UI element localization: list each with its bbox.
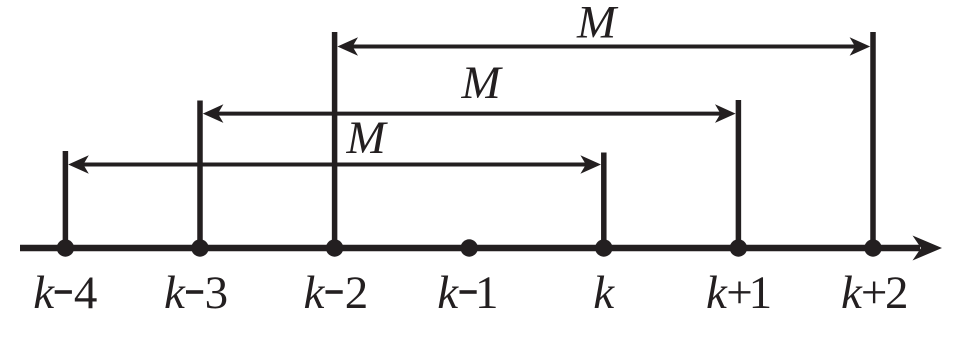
svg-text:M: M [346, 112, 389, 164]
svg-text:k: k [593, 267, 615, 319]
tick line at k+2 [870, 32, 876, 248]
axis label k+1 [706, 267, 772, 319]
node dot k+1 [730, 239, 747, 256]
number line axis with arrowhead [20, 236, 942, 261]
axis label k-3 [164, 267, 228, 319]
axis label k-4 [33, 267, 97, 319]
svg-text:k: k [706, 267, 728, 319]
node dot k [595, 239, 612, 256]
tick line at k-2 [332, 32, 338, 248]
svg-text:2: 2 [345, 267, 369, 319]
tick line at k-3 [197, 101, 203, 249]
svg-text:k: k [33, 267, 55, 319]
svg-text:M: M [461, 57, 504, 109]
svg-text:M: M [576, 0, 619, 49]
double-headed span arrow M (k-2 to k+2), top [337, 37, 870, 56]
axis label k-1 [437, 267, 498, 319]
double-headed span arrow M (k-4 to k), bottom [68, 155, 601, 174]
svg-text:k: k [437, 267, 459, 319]
svg-text:k: k [164, 267, 186, 319]
axis label k-2 [304, 267, 369, 319]
svg-text:k: k [841, 267, 863, 319]
tick line at k [601, 153, 607, 249]
svg-text:1: 1 [475, 267, 499, 319]
svg-text:4: 4 [74, 267, 98, 319]
node dot k-2 [326, 239, 343, 256]
tick line at k-4 [63, 151, 69, 248]
axis label k+2 [841, 267, 909, 319]
double-headed span arrow M (k-3 to k+1), middle [203, 104, 736, 123]
tick line at k+1 [736, 100, 742, 248]
node dot k-4 [57, 239, 74, 256]
svg-text:3: 3 [205, 267, 229, 319]
node dot k-1 [461, 239, 478, 256]
node dot k+2 [864, 239, 881, 256]
svg-text:1: 1 [749, 267, 773, 319]
node dot k-3 [191, 239, 208, 256]
svg-text:2: 2 [885, 267, 909, 319]
svg-text:k: k [304, 267, 326, 319]
svg-text:+: + [861, 267, 888, 319]
